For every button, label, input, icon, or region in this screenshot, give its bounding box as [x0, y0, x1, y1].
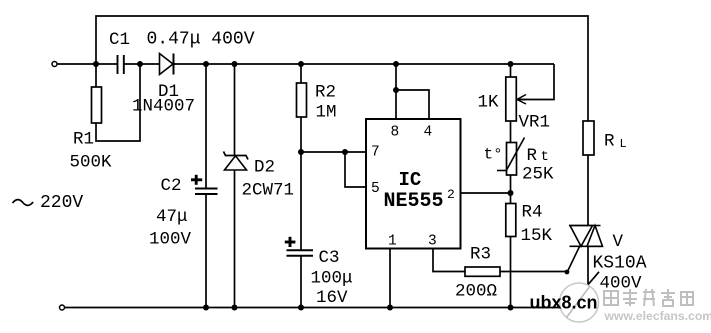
- node C1/D1 junction: [137, 61, 143, 67]
- gate wire of triac: [567, 247, 580, 273]
- svg-text:8: 8: [391, 125, 400, 141]
- svg-text:100V: 100V: [149, 230, 192, 250]
- svg-text:KS10A: KS10A: [593, 254, 647, 274]
- node C2 top junction: [203, 61, 209, 67]
- wire R4 to bottom rail: [510, 237, 512, 308]
- wire R3 to gate bend: [500, 271, 567, 273]
- svg-text:C1: C1: [109, 30, 130, 50]
- wire bottom rail: [65, 307, 589, 309]
- svg-text:4: 4: [424, 125, 433, 141]
- wire pin1 to bottom rail: [389, 249, 391, 308]
- node gate bend junction: [565, 270, 570, 275]
- wire AC line terminal to C1: [57, 63, 117, 65]
- svg-text:1N4007: 1N4007: [132, 97, 195, 117]
- triac V: [569, 226, 603, 247]
- node R4 bottom rail junction: [508, 305, 514, 311]
- node C3 bottom rail junction: [298, 305, 304, 311]
- svg-text:5: 5: [371, 181, 380, 197]
- svg-text:500K: 500K: [70, 153, 113, 173]
- svg-text:D2: D2: [254, 158, 275, 178]
- svg-text:2: 2: [447, 187, 455, 202]
- wire top rail y=16: [96, 16, 588, 121]
- svg-text:220V: 220V: [40, 193, 83, 213]
- node C2 bottom rail junction: [203, 305, 209, 311]
- svg-text:47μ: 47μ: [156, 207, 188, 227]
- svg-text:IC: IC: [399, 169, 422, 191]
- wire D2 column: [234, 64, 236, 156]
- node pin7/R2/C3 junction: [298, 149, 304, 155]
- thermistor Rt: [497, 138, 525, 176]
- svg-text:100μ: 100μ: [311, 269, 353, 289]
- svg-text:1: 1: [388, 234, 397, 250]
- svg-text:R: R: [604, 132, 615, 152]
- svg-text:V: V: [613, 232, 624, 252]
- svg-text:R2: R2: [315, 83, 336, 103]
- resistor R1: [92, 87, 102, 123]
- svg-text:7: 7: [371, 145, 380, 161]
- potentiometer VR1: [506, 77, 517, 121]
- zener diode D2: [224, 152, 249, 171]
- node pin8/pin4 tie junction: [393, 87, 399, 93]
- node Vcc tap junction: [393, 61, 399, 67]
- label /400V: [587, 272, 600, 287]
- node pin2/Rt/R4 junction: [508, 190, 514, 196]
- svg-text:1K: 1K: [478, 93, 500, 113]
- svg-text:www.elecfans.com: www.elecfans.com: [604, 309, 711, 323]
- svg-text:t°: t°: [484, 146, 503, 164]
- watermark CJK glyph blocks: [604, 289, 693, 306]
- svg-text:R1: R1: [73, 130, 94, 150]
- svg-text:200Ω: 200Ω: [455, 282, 497, 302]
- svg-text:C3: C3: [319, 248, 340, 268]
- wire D1 to pot corner: [174, 63, 555, 65]
- wire R1 parallel loop: [95, 64, 97, 87]
- svg-text:3: 3: [428, 234, 437, 250]
- svg-text:t: t: [541, 149, 549, 165]
- wiper arrow of VR1: [517, 95, 527, 105]
- svg-text:R4: R4: [522, 203, 543, 223]
- wire pin3 to R3: [433, 249, 465, 272]
- node pin1 bottom rail junction: [387, 305, 393, 311]
- capacitor C3 (electrolytic): [285, 237, 313, 256]
- svg-text:NE555: NE555: [384, 190, 444, 213]
- svg-text:15K: 15K: [521, 226, 553, 246]
- svg-text:2CW71: 2CW71: [242, 181, 295, 201]
- svg-text:L: L: [620, 137, 627, 151]
- wire pin5 stub: [345, 152, 366, 187]
- wire C2 column: [205, 64, 207, 188]
- diode D1: [160, 54, 174, 75]
- capacitor C2 (electrolytic): [191, 175, 218, 194]
- wire C1 to D1: [124, 63, 160, 65]
- node R1/C1 left junction: [93, 61, 99, 67]
- watermark circle logo: [560, 283, 599, 322]
- node R2 top junction: [298, 61, 304, 67]
- wire VR1 to Rt: [510, 121, 512, 143]
- resistor RL: [583, 121, 594, 155]
- svg-text:16V: 16V: [316, 288, 348, 308]
- node D2 bottom rail junction: [232, 305, 238, 311]
- capacitor C1: [118, 55, 124, 74]
- wire pins 8 and 4 tie: [395, 64, 397, 119]
- resistor R2: [297, 83, 307, 117]
- node VR1 top junction: [508, 61, 514, 67]
- svg-text:25K: 25K: [522, 165, 554, 185]
- resistor R4: [506, 204, 516, 237]
- svg-text:C2: C2: [161, 176, 182, 196]
- wire R2/C3 column: [300, 64, 302, 83]
- op-amp/timer IC U1 NE555 box: [366, 119, 461, 249]
- wire Rt to R4 node: [510, 175, 512, 204]
- wire RL to triac: [587, 155, 589, 226]
- wire wiper loop: [519, 64, 554, 100]
- svg-text:0.47μ 400V: 0.47μ 400V: [147, 30, 255, 50]
- svg-text:R3: R3: [470, 245, 491, 265]
- terminal bottom: [60, 305, 65, 310]
- wire pin7: [301, 151, 366, 153]
- svg-text:R: R: [527, 146, 538, 166]
- svg-text:VR1: VR1: [519, 113, 551, 133]
- svg-text:1M: 1M: [316, 103, 337, 123]
- wire VR1 top: [510, 64, 512, 77]
- wire triac cathode to bottom rail: [587, 247, 589, 308]
- svg-text:ubx8.cn: ubx8.cn: [530, 293, 598, 313]
- terminal top: [52, 62, 57, 67]
- node D2 top junction: [232, 61, 238, 67]
- wire pin2 to node: [461, 192, 511, 194]
- resistor R3: [465, 267, 500, 276]
- AC tilde symbol: [13, 200, 34, 206]
- node pin5 tap junction: [342, 149, 348, 155]
